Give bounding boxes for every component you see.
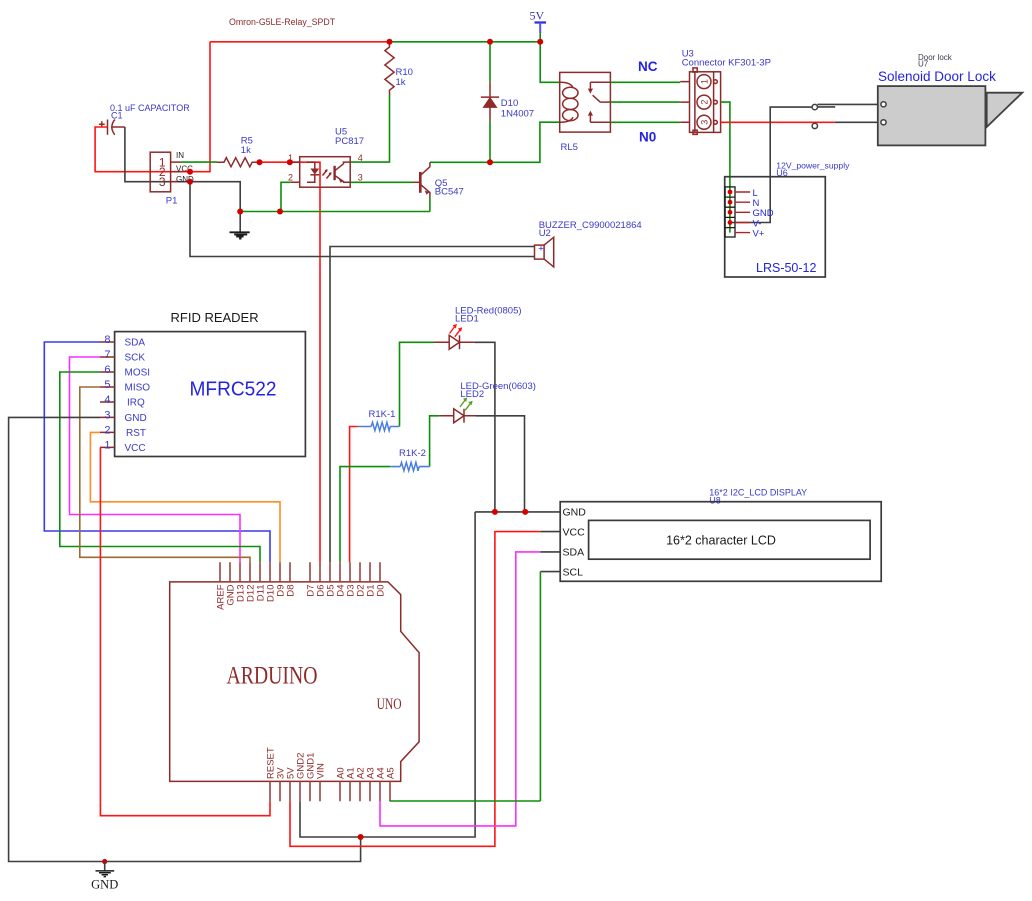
wire black Arduino GND2 to LCD GND <box>300 512 475 837</box>
wire black LCD GND row <box>475 511 560 513</box>
power supply U6 LRS-50-12 <box>725 161 850 277</box>
svg-text:LRS-50-12: LRS-50-12 <box>756 261 816 275</box>
svg-text:PC817: PC817 <box>335 136 364 147</box>
svg-text:16*2 I2C_LCD DISPLAY: 16*2 I2C_LCD DISPLAY <box>709 487 807 497</box>
wire magenta Arduino A4 to LCD SDA <box>380 552 540 826</box>
relay RL5 <box>560 72 611 153</box>
svg-text:BUZZER_C9900021864: BUZZER_C9900021864 <box>539 220 642 231</box>
svg-text:3: 3 <box>700 120 710 125</box>
svg-text:7: 7 <box>104 349 110 361</box>
svg-text:3: 3 <box>104 409 110 421</box>
svg-text:P1: P1 <box>166 195 178 206</box>
svg-text:Connector KF301-3P: Connector KF301-3P <box>682 58 771 69</box>
resistor R5 1k <box>217 136 260 167</box>
svg-text:1k: 1k <box>396 77 406 88</box>
svg-text:SCK: SCK <box>125 353 146 364</box>
wire black LED1 cathode to LCD GND <box>474 342 495 512</box>
svg-text:MISO: MISO <box>125 383 151 394</box>
wire green relay NO to U3 pin3 <box>610 121 680 123</box>
wire green LED2 anode <box>430 416 440 467</box>
svg-text:Solenoid Door Lock: Solenoid Door Lock <box>878 69 996 84</box>
connector U3 KF301-3P <box>680 49 771 135</box>
svg-text:D8: D8 <box>285 585 296 597</box>
Arduino top pin stubs <box>220 562 380 582</box>
svg-text:U2: U2 <box>539 228 551 239</box>
wire green relay NC to U3 pin1 <box>610 81 680 83</box>
wire red R5 to U5 pin1 <box>260 161 290 163</box>
svg-text:ARDUINO: ARDUINO <box>227 663 318 690</box>
junction dots LCD GND row <box>492 509 498 515</box>
wire red U3 pin3 to door switch <box>721 121 835 123</box>
svg-text:VCC: VCC <box>563 526 586 538</box>
Arduino bottom pin labels <box>265 747 396 779</box>
Arduino top pin labels <box>215 584 386 610</box>
svg-text:GND: GND <box>125 413 147 424</box>
wire black P1 GND to ground rail <box>190 182 240 212</box>
door switch contacts <box>812 104 881 128</box>
wire black solenoid upper terminal via switch to supply V- <box>731 107 812 222</box>
wire green U5 pin3 to Q5 base <box>350 181 413 183</box>
svg-text:+: + <box>538 243 544 254</box>
svg-text:5V: 5V <box>530 9 545 23</box>
svg-text:Omron-G5LE-Relay_SPDT: Omron-G5LE-Relay_SPDT <box>229 17 336 27</box>
resistor R1K-2 <box>390 448 429 471</box>
svg-text:SDA: SDA <box>125 338 146 349</box>
LED2 LED-Green(0603) <box>439 381 536 423</box>
svg-text:D10: D10 <box>501 98 518 109</box>
ground symbol bottom GND <box>91 859 118 892</box>
svg-text:N0: N0 <box>639 130 656 145</box>
svg-text:U7: U7 <box>918 60 929 69</box>
LED1 LED-Red(0805) <box>434 305 522 349</box>
svg-text:6: 6 <box>104 364 110 376</box>
wire magenta SCK to Arduino D13 <box>70 357 241 562</box>
LCD display U8 <box>540 487 881 581</box>
wire top rail green segment <box>390 41 541 43</box>
wire red R1K-1 to Arduino D3 <box>350 427 358 563</box>
resistor R10 <box>385 42 413 95</box>
wire red RFID VCC to Arduino RESET <box>100 447 270 815</box>
wire green LED1 anode <box>400 342 435 426</box>
wire red pin1 node down to Arduino D6 <box>290 162 320 562</box>
svg-text:GND: GND <box>563 507 587 519</box>
svg-text:C1: C1 <box>111 111 123 121</box>
wire red Arduino 5V to LCD VCC <box>290 532 540 847</box>
wire green R1K-2 to Arduino D4 <box>340 467 390 563</box>
svg-text:1: 1 <box>104 439 110 451</box>
solenoid door lock U7 <box>878 53 1023 146</box>
svg-text:NC: NC <box>638 59 658 74</box>
wire green U3 pin2 to supply V+ <box>721 102 730 233</box>
wire red from rail down to P1 VCC <box>190 42 210 172</box>
svg-text:R1K-1: R1K-1 <box>369 409 396 420</box>
wire green ground rail <box>240 211 430 213</box>
transistor Q5 BC547 <box>413 162 464 197</box>
wire red C1 plus to VCC row <box>95 127 190 172</box>
svg-text:VCC: VCC <box>125 443 146 454</box>
optocoupler U5 PC817 <box>288 127 364 188</box>
svg-text:IRQ: IRQ <box>127 398 145 409</box>
svg-text:MOSI: MOSI <box>125 368 151 379</box>
svg-text:LED2: LED2 <box>460 389 484 400</box>
wire orange RST to Arduino D9 <box>90 432 280 562</box>
svg-text:V+: V+ <box>753 228 765 239</box>
svg-text:IN: IN <box>176 151 184 160</box>
buzzer U2 <box>535 220 642 267</box>
junction dots top section <box>387 39 393 45</box>
svg-text:1: 1 <box>700 79 710 84</box>
svg-text:D0: D0 <box>375 585 386 597</box>
svg-text:5: 5 <box>104 379 110 391</box>
wire black buzzer plus to Arduino D5 <box>330 247 535 563</box>
wire black C1 minus to GND row <box>125 127 190 182</box>
capacitor C1 <box>99 103 190 135</box>
wire black P1 GND down to buzzer minus <box>190 182 535 257</box>
svg-text:2: 2 <box>288 172 293 182</box>
Arduino UNO board <box>170 582 419 782</box>
svg-text:2: 2 <box>104 424 110 436</box>
power symbol 5V <box>530 9 547 34</box>
svg-text:SCL: SCL <box>563 566 584 578</box>
wire black RFID GND to bottom ground net <box>9 417 361 861</box>
svg-text:1k: 1k <box>241 145 251 156</box>
wire brown MISO to Arduino D12 <box>80 387 250 562</box>
wire green relay COM to U3 pin2 <box>610 101 680 103</box>
svg-text:2: 2 <box>700 100 710 105</box>
svg-text:4: 4 <box>358 153 363 163</box>
wire top rail red segment <box>210 41 390 43</box>
wire blue SDA to Arduino D10 <box>44 342 270 562</box>
svg-text:1N4007: 1N4007 <box>501 109 534 120</box>
Arduino bottom pin stubs <box>270 781 390 801</box>
svg-text:LED1: LED1 <box>455 313 479 324</box>
wire green U5 pin2 to ground rail <box>281 182 290 211</box>
svg-text:UNO: UNO <box>377 696 402 713</box>
svg-text:VIN: VIN <box>315 763 326 779</box>
wire green MOSI to Arduino D11 <box>60 372 260 562</box>
svg-text:16*2 character LCD: 16*2 character LCD <box>666 534 776 548</box>
wire green Q5 emitter to ground rail <box>429 198 431 212</box>
wire green coil bottom to collector rail <box>430 122 560 162</box>
svg-text:MFRC522: MFRC522 <box>190 378 277 400</box>
junction dot ground net <box>358 834 364 840</box>
wire black LED2 cathode to LCD GND <box>476 416 525 512</box>
svg-text:SDA: SDA <box>563 547 585 559</box>
svg-text:GND: GND <box>91 877 118 891</box>
RFID reader U1 MFRC522 <box>100 310 305 457</box>
ground symbol near P1 <box>230 212 250 239</box>
svg-text:A5: A5 <box>385 767 396 779</box>
svg-text:RST: RST <box>126 428 146 439</box>
connector P1 <box>150 151 194 207</box>
svg-text:RFID READER: RFID READER <box>171 310 259 325</box>
svg-text:R1K-2: R1K-2 <box>399 448 426 459</box>
resistor R1K-1 <box>358 409 400 431</box>
wire green Arduino A5 to LCD SCL <box>390 572 540 802</box>
wire black switch to solenoid lower terminal <box>835 121 881 123</box>
wire green R10 bottom to U5 pin4 <box>350 95 389 162</box>
svg-text:U8: U8 <box>709 496 721 506</box>
svg-text:4: 4 <box>104 394 110 406</box>
svg-text:BC547: BC547 <box>435 186 464 197</box>
svg-text:8: 8 <box>104 334 110 346</box>
svg-text:3: 3 <box>159 175 166 189</box>
diode D10 1N4007 <box>481 42 534 163</box>
wire green 5V node down to relay coil top <box>540 33 560 82</box>
wire green P1 IN to R5 <box>181 161 217 163</box>
svg-text:3: 3 <box>358 172 363 182</box>
svg-text:RL5: RL5 <box>561 142 578 153</box>
